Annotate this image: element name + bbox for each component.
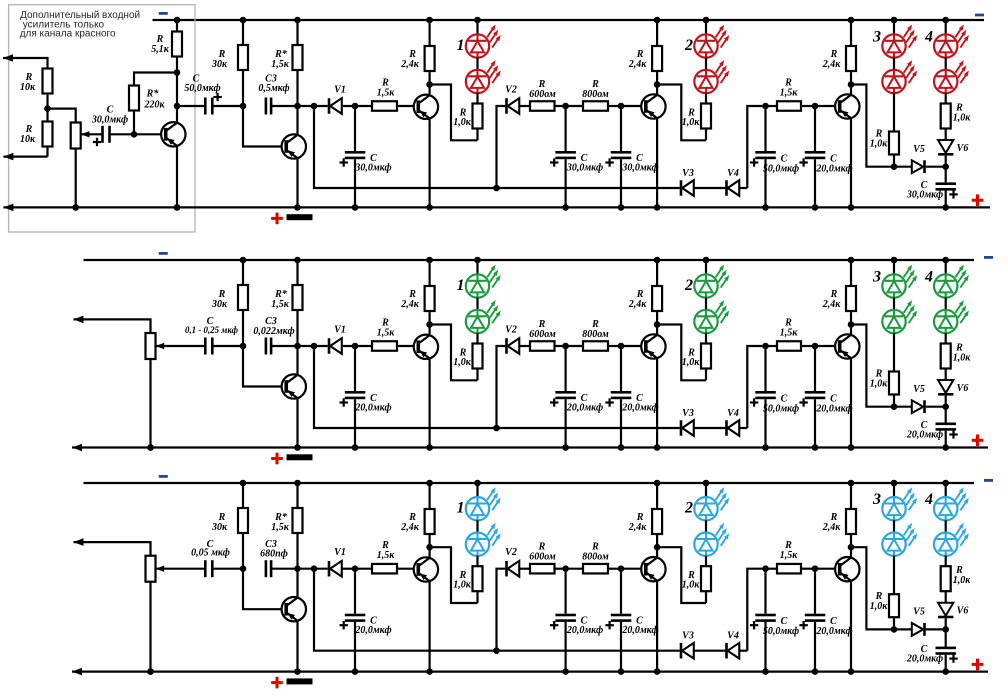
svg-text:1,0к: 1,0к [453,357,472,368]
svg-text:V3: V3 [682,631,694,642]
svg-text:1,5к: 1,5к [377,88,396,99]
potentiometer wiper arrow (box) [81,131,102,137]
plus polarity mark at ground (channel 3) [271,677,283,689]
minus polarity mark left (channel 2) [159,252,168,255]
potentiometer wiper arrow (channel 3) [156,566,204,572]
svg-text:V2: V2 [505,85,517,96]
svg-text:1,0к: 1,0к [682,117,701,128]
svg-text:V1: V1 [334,325,346,336]
plus polarity mark right (channel 2) [972,435,984,447]
svg-text:V5: V5 [913,384,925,395]
svg-text:30,0мкф: 30,0мкф [91,114,128,125]
resistor R1,0к under LED pair 1 (channel 2) [453,333,482,380]
svg-text:20,0мкф: 20,0мкф [566,403,603,414]
resistor R 30к (channel 3) [211,480,248,572]
transistor VT third stage (channel 2) [621,325,666,451]
LED pair 3 (channel 2) [872,257,917,334]
resistor R1,0к under LED pair 2 (channel 3) [682,556,711,603]
svg-text:1,5к: 1,5к [780,88,799,99]
wire box output to coupling cap [177,105,204,107]
capacitor C 50,0мкф (averaging, channel 3) [750,565,799,674]
diode V1 (channel 2) [298,325,356,354]
resistor R1,0к under LED pair 4 (channel 3) [941,565,972,603]
svg-text:V4: V4 [727,168,739,179]
svg-text:2,4к: 2,4к [400,59,420,70]
wire collector junction to LED chain (stage 2, channel 1) [654,81,706,140]
svg-text:800ом: 800ом [582,329,609,340]
diode V1 (channel 1) [298,85,356,114]
LED pair 3 (channel 3) [872,480,917,556]
resistor R 1,5к (averaging, channel 1) [766,78,816,111]
svg-text:2,4к: 2,4к [628,522,648,533]
wire collector junction to LED chain (stage 1, channel 3) [426,544,477,603]
capacitor C 30,0мкф (detector filter 2, channel 1) [605,103,658,211]
capacitor C 0,05 мкф (input coupling, channel 3) [191,539,243,577]
svg-text:800ом: 800ом [582,89,609,100]
capacitor C 30,0мкф at V1 (channel 1) [340,103,392,211]
wire detector bus up to averaging stage (channel 3) [747,569,765,651]
ground symbol (channel 3) [287,678,313,684]
resistor R1,0к under LED pair 3 (channel 2) [870,333,899,407]
wire to detector bus (channel 2) [314,346,680,428]
transistor VT fourth stage (channel 2) [815,325,860,451]
plus power rail (bottom, channel 1) [3,204,990,212]
svg-text:1,0к: 1,0к [870,601,889,612]
resistor R 600ом (channel 2) [529,319,565,351]
svg-text:20,0мкф: 20,0мкф [906,654,943,665]
capacitor C 20,0мкф (averaging 2, channel 1) [799,103,852,211]
LED pair 3 (channel 1) [872,17,917,94]
svg-text:1,0к: 1,0к [682,580,701,591]
svg-text:V6: V6 [957,143,969,154]
svg-text:1,0к: 1,0к [953,113,972,124]
svg-text:0,022мкф: 0,022мкф [253,326,294,337]
transistor VT first stage (channel 3) [243,569,306,675]
svg-text:V4: V4 [727,408,739,419]
resistor R2,4к (output stage 3, channel 1) [822,17,856,85]
resistor R 5,1к (box collector load) [151,17,182,73]
capacitor C 20,0мкф (detector filter 1, channel 2) [550,343,603,451]
svg-text:1,5к: 1,5к [780,328,799,339]
svg-text:3: 3 [872,269,881,286]
diode V4 (channel 2) [725,408,747,436]
input arrow (channel 2) [74,316,151,333]
resistor R2,4к (output stage 1, channel 3) [400,480,434,548]
svg-text:10к: 10к [20,82,36,93]
input arrow (channel 3) [74,538,151,555]
svg-text:2,4к: 2,4к [822,522,842,533]
svg-text:0,1 - 0,25 мкф: 0,1 - 0,25 мкф [185,325,239,335]
svg-text:50,0мкф: 50,0мкф [763,404,799,415]
svg-text:1,5к: 1,5к [377,550,396,561]
transistor VT third stage (channel 3) [621,547,666,675]
LED pair 1 (channel 2) [457,257,501,334]
svg-text:600ом: 600ом [529,552,556,563]
capacitor C 30,0мкф (output, channel 1) [906,163,958,210]
svg-text:для канала красного: для канала красного [20,29,116,40]
svg-text:V3: V3 [682,408,694,419]
svg-text:20,0мкф: 20,0мкф [815,626,852,637]
minus polarity mark left (channel 1) [159,12,168,15]
LED pair 1 (channel 1) [457,17,501,94]
svg-text:2,4к: 2,4к [822,59,842,70]
resistor R* 1,5к (channel 2) [271,257,302,350]
resistor R1,0к under LED pair 3 (channel 3) [870,556,899,630]
minus polarity mark right (channel 2) [984,256,993,259]
svg-text:30,0мкф: 30,0мкф [621,163,658,174]
svg-text:30к: 30к [211,299,228,310]
svg-text:50,0мкф: 50,0мкф [763,164,799,175]
svg-text:4: 4 [924,29,933,46]
svg-text:2,4к: 2,4к [400,522,420,533]
LED pair 1 (channel 3) [457,480,501,556]
minus polarity mark right (channel 1) [975,14,984,17]
diode V6 (channel 3) [938,603,968,630]
svg-text:20,0мкф: 20,0мкф [566,625,603,636]
svg-text:1,0к: 1,0к [870,139,889,150]
diode V2 (channel 1) [493,85,530,192]
input arrow lower (red channel) [3,153,47,161]
transistor VT second stage (channel 3) [414,547,438,675]
wire detector bus up to averaging stage (channel 1) [747,106,765,188]
transistor VT second stage (channel 2) [414,325,438,451]
svg-text:50,0мкф: 50,0мкф [184,83,220,94]
svg-text:V5: V5 [913,144,925,155]
resistor R 1,5к (first stage out, channel 2) [355,318,418,351]
potentiometer wiper arrow (channel 2) [156,343,204,349]
plus polarity mark at ground (channel 2) [271,453,283,465]
capacitor C 20,0мкф (output, channel 3) [906,626,958,675]
wire to detector bus (channel 1) [314,106,680,188]
note text: additional input amplifier for red channel [20,10,140,40]
svg-text:1,0к: 1,0к [870,379,889,390]
capacitor C 20,0мкф (detector filter 2, channel 2) [605,343,658,451]
resistor R1,0к under LED pair 2 (channel 1) [682,93,711,140]
capacitor C 20,0мкф at V1 (channel 2) [340,343,392,451]
svg-text:30к: 30к [211,522,228,533]
diode V3 (channel 3) [680,631,726,659]
svg-text:1,0к: 1,0к [682,357,701,368]
resistor R 1,5к (first stage out, channel 1) [355,78,418,111]
svg-text:20,0мкф: 20,0мкф [621,625,658,636]
resistor R2,4к (output stage 2, channel 1) [628,17,662,85]
diode V5 (channel 3) [891,607,946,636]
LED pair 4 (channel 3) [924,480,969,567]
resistor R 10к (upper divider) [20,69,53,112]
resistor R 1,5к (averaging, channel 2) [766,318,816,351]
svg-text:2,4к: 2,4к [400,299,420,310]
diode V5 (channel 2) [891,384,946,413]
transistor VT third stage (channel 1) [621,85,666,211]
svg-text:2: 2 [684,277,693,294]
svg-text:0,05 мкф: 0,05 мкф [191,548,230,559]
dashed frame: additional input amplifier (red channel only) [9,5,195,232]
wire collector junction to LED chain (stage 1, channel 2) [426,321,477,380]
svg-text:20,0мкф: 20,0мкф [354,625,391,636]
LED pair 4 (channel 1) [924,17,969,104]
svg-text:20,0мкф: 20,0мкф [621,403,658,414]
plus polarity mark right (channel 1) [972,194,984,206]
capacitor C3 0,5мкф (channel 1) [258,74,297,115]
resistor R2,4к (output stage 3, channel 2) [822,257,856,325]
transistor VT first stage (channel 1) [243,106,306,211]
transistor VT (box amplifier) [134,73,186,211]
svg-text:1,5к: 1,5к [271,59,290,70]
wire collector junction to LED chain (stage 2, channel 3) [654,544,706,603]
resistor R 600ом (channel 3) [529,542,565,574]
minus polarity mark right (channel 3) [984,479,993,482]
svg-text:800ом: 800ом [582,552,609,563]
LED pair 2 (channel 3) [684,480,729,556]
capacitor C 20,0мкф (output, channel 2) [906,403,958,450]
LED pair 4 (channel 2) [924,257,969,344]
capacitor C 20,0мкф (detector filter 2, channel 3) [605,565,658,674]
wire collector junction to LED chain (stage 1, channel 1) [426,81,477,140]
resistor R 30к (channel 1) [211,17,248,110]
LED pair 2 (channel 1) [684,17,729,94]
capacitor C3 680пф (channel 3) [260,539,297,577]
diode V1 (channel 3) [298,547,356,576]
svg-text:V2: V2 [505,547,517,558]
svg-text:V1: V1 [334,85,346,96]
svg-text:2,4к: 2,4к [628,59,648,70]
input arrow upper (red channel) [3,54,48,68]
svg-text:5,1к: 5,1к [151,44,170,55]
plus polarity mark right (channel 3) [972,659,984,671]
svg-text:V6: V6 [957,606,969,617]
diode V4 (channel 1) [725,168,747,196]
plus power rail (bottom, channel 3) [72,668,988,676]
svg-text:220к: 220к [143,100,165,111]
svg-text:50,0мкф: 50,0мкф [763,626,799,637]
resistor R 30к (channel 2) [211,257,248,350]
resistor R1,0к under LED pair 1 (channel 3) [453,556,482,603]
resistor R1,0к under LED pair 3 (channel 1) [870,93,899,167]
diode V2 (channel 2) [493,325,530,432]
potentiometer (box input level) [48,109,81,211]
svg-text:1,0к: 1,0к [453,117,472,128]
resistor R2,4к (output stage 2, channel 3) [628,480,662,548]
svg-text:1,5к: 1,5к [271,299,290,310]
resistor R 1,5к (averaging, channel 3) [766,540,816,573]
resistor R* 1,5к (channel 3) [271,480,302,572]
transistor VT fourth stage (channel 3) [815,547,860,675]
resistor R 800ом (channel 2) [566,319,621,351]
svg-text:600ом: 600ом [529,329,556,340]
svg-text:1,5к: 1,5к [377,328,396,339]
capacitor C 50,0мкф (averaging, channel 2) [750,343,799,451]
potentiometer (input level, channel 3) [146,556,156,675]
capacitor C 0,1 - 0,25 мкф (input coupling, channel 2) [185,316,243,354]
transistor VT second stage (channel 1) [414,85,438,211]
svg-text:V3: V3 [682,168,694,179]
diode V4 (channel 3) [725,631,747,659]
resistor R2,4к (output stage 1, channel 2) [400,257,434,325]
plus polarity mark at ground (channel 1) [271,213,283,225]
capacitor C 20,0мкф (averaging 2, channel 2) [799,343,852,451]
capacitor C 30,0мкф (box coupling) [91,105,134,147]
minus power rail (top, channel 3) [84,482,975,484]
diode V2 (channel 3) [493,547,530,654]
capacitor C 20,0мкф (averaging 2, channel 3) [799,565,852,674]
minus power rail (top, channel 2) [84,259,975,261]
resistor R* 1,5к (channel 1) [271,17,302,110]
svg-text:3: 3 [872,491,881,508]
ground symbol (channel 1) [287,214,313,220]
svg-text:2,4к: 2,4к [628,299,648,310]
svg-text:1,0к: 1,0к [453,580,472,591]
svg-text:4: 4 [924,491,933,508]
diode V3 (channel 2) [680,408,726,436]
svg-text:V4: V4 [727,631,739,642]
wire collector junction to LED chain (stage 2, channel 2) [654,321,706,380]
svg-text:2: 2 [684,37,693,54]
resistor R1,0к under LED pair 4 (channel 2) [941,343,972,381]
resistor R2,4к (output stage 3, channel 3) [822,480,856,548]
svg-text:0,5мкф: 0,5мкф [258,83,289,94]
wire collector junction to LED chain (stage 3, channel 3) [848,544,894,630]
diode V6 (channel 1) [938,140,968,167]
svg-text:680пф: 680пф [260,549,288,560]
svg-text:20,0мкф: 20,0мкф [815,164,852,175]
svg-text:1,0к: 1,0к [953,575,972,586]
diode V5 (channel 1) [891,144,946,173]
svg-text:1,0к: 1,0к [953,353,972,364]
svg-text:1,5к: 1,5к [271,522,290,533]
svg-text:30к: 30к [211,59,228,70]
svg-text:30,0мкф: 30,0мкф [906,189,943,200]
resistor R 800ом (channel 3) [566,542,621,574]
svg-text:V5: V5 [913,607,925,618]
svg-text:2: 2 [684,500,693,517]
svg-text:V6: V6 [957,383,969,394]
wire detector bus up to averaging stage (channel 2) [747,346,765,428]
svg-text:20,0мкф: 20,0мкф [815,404,852,415]
svg-text:V2: V2 [505,325,517,336]
wire to detector bus (channel 3) [314,569,680,651]
potentiometer (input level, channel 2) [146,333,156,451]
capacitor C 30,0мкф (detector filter 1, channel 1) [550,103,603,211]
resistor R1,0к under LED pair 2 (channel 2) [682,333,711,380]
capacitor C 20,0мкф at V1 (channel 3) [340,565,392,674]
svg-text:30,0мкф: 30,0мкф [566,163,603,174]
capacitor C 50,0мкф (input coupling, channel 1) [184,74,243,115]
capacitor C 50,0мкф (averaging, channel 1) [750,103,799,211]
svg-text:10к: 10к [20,134,36,145]
minus polarity mark left (channel 3) [159,475,168,478]
wire collector junction to LED chain (stage 3, channel 1) [848,81,894,167]
resistor R 800ом (channel 1) [566,79,621,111]
transistor VT first stage (channel 2) [243,346,306,451]
resistor R1,0к under LED pair 1 (channel 1) [453,93,482,140]
svg-text:30,0мкф: 30,0мкф [354,163,391,174]
diode V6 (channel 2) [938,380,968,407]
minus power rail (top, channel 1) [153,19,985,21]
transistor VT fourth stage (channel 1) [815,85,860,211]
resistor R2,4к (output stage 2, channel 2) [628,257,662,325]
resistor R2,4к (output stage 1, channel 1) [400,17,434,85]
svg-text:1: 1 [457,277,465,294]
LED pair 2 (channel 2) [684,257,729,334]
svg-text:20,0мкф: 20,0мкф [906,430,943,441]
plus power rail (bottom, channel 2) [72,444,988,452]
svg-text:20,0мкф: 20,0мкф [354,403,391,414]
ground symbol (channel 2) [287,454,313,460]
svg-text:1,5к: 1,5к [780,550,799,561]
resistor R1,0к under LED pair 4 (channel 1) [941,103,972,141]
capacitor C3 0,022мкф (channel 2) [253,316,297,354]
svg-text:2,4к: 2,4к [822,299,842,310]
svg-text:R*: R* [146,89,160,100]
resistor R 1,5к (first stage out, channel 3) [355,540,418,573]
resistor R* 220к (box bias) [129,69,180,137]
diode V3 (channel 1) [680,168,726,196]
svg-text:1: 1 [457,37,465,54]
resistor R 600ом (channel 1) [529,79,565,111]
svg-text:3: 3 [872,29,881,46]
svg-text:V1: V1 [334,547,346,558]
wire collector junction to LED chain (stage 3, channel 2) [848,321,894,407]
svg-text:4: 4 [924,269,933,286]
svg-text:600ом: 600ом [529,89,556,100]
svg-text:1: 1 [457,500,465,517]
capacitor C 20,0мкф (detector filter 1, channel 3) [550,565,603,674]
resistor R 10к (lower divider) [20,109,53,157]
